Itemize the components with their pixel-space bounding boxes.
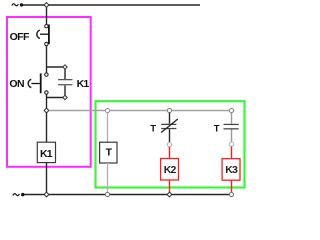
label OFF	[10, 31, 30, 43]
wire: K1 contact lower lead	[64, 86, 66, 96]
node: diamond at feed tap	[44, 108, 49, 113]
coil K3 (relay)	[222, 159, 240, 181]
svg-text:T: T	[150, 123, 156, 134]
label T (timed contact NC)	[150, 123, 156, 134]
coil T (timer)	[100, 142, 117, 163]
wire: red K3 coil to bottom rail	[231, 180, 233, 193]
wire: main vertical drop to OFF button	[46, 5, 48, 24]
AC source symbol ~ (top left)	[12, 4, 19, 6]
wire: red lead into K2 coil	[169, 147, 171, 159]
wire: branch to K1 contact (lower)	[47, 97, 64, 99]
node: corner diamond upper	[63, 65, 67, 69]
wire: segment OFF to ON / branch	[46, 46, 48, 73]
wire: lead to timed NC contact	[169, 113, 171, 124]
wire: red lead into K3 coil	[231, 146, 233, 158]
node: bottom supply dot	[21, 193, 24, 196]
node: diamond K1 to rail	[44, 192, 49, 197]
node: end circle K3 to rail	[229, 192, 233, 196]
svg-text:OFF: OFF	[10, 31, 30, 43]
frame: green group box (timer branch circuit)	[96, 101, 245, 187]
wire: K1 coil to bottom rail	[46, 163, 48, 193]
wire: T coil to bottom rail	[107, 163, 109, 192]
svg-text:K3: K3	[225, 164, 238, 176]
node: junction diamond on top rail	[44, 3, 49, 8]
pushbutton ON (normally open)	[28, 73, 48, 94]
wire: top supply rail L1	[23, 4, 201, 6]
wire: red K2 coil to bottom rail	[169, 180, 171, 194]
wire: timed NC contact to terminal	[169, 129, 171, 142]
svg-text:K1: K1	[40, 148, 53, 160]
wire: K1 contact upper lead	[64, 69, 66, 79]
node: diamond K2 to rail	[167, 192, 172, 197]
node: corner diamond lower	[63, 95, 67, 99]
AC source symbol ~ (bottom left)	[13, 194, 20, 196]
node: terminal circle above K3	[229, 142, 233, 146]
node: top supply dot	[20, 3, 23, 6]
node: end circle on feed (K3 branch)	[229, 108, 233, 112]
wire: timed NO contact to terminal	[231, 130, 233, 143]
wire: ON to K1 coil	[46, 94, 48, 142]
svg-text:ON: ON	[9, 78, 24, 90]
svg-text:K1: K1	[77, 78, 90, 90]
pushbutton OFF (normally closed)	[37, 25, 50, 46]
svg-text:T: T	[106, 147, 113, 159]
svg-text:T: T	[214, 123, 220, 134]
contact K1 (latch contact, normally open)	[58, 79, 72, 85]
node: circle T to rail	[105, 192, 109, 196]
coil K1 (relay)	[37, 142, 55, 162]
node: circle tap on feed (T branch)	[105, 108, 109, 112]
label T (timed contact NO)	[214, 123, 220, 134]
node: terminal circle above K2	[167, 142, 171, 146]
wire: gray drop to timer coil T	[107, 112, 109, 142]
coil K2 (relay)	[161, 159, 179, 181]
wire: bottom supply rail N	[24, 194, 229, 196]
node: circle tap on feed (K2 branch)	[167, 108, 171, 112]
frame: magenta group box (start/stop latch circuit)	[7, 17, 91, 167]
svg-text:K2: K2	[164, 164, 177, 176]
contact T timed normally-open	[224, 124, 239, 130]
contact T timed normally-closed (slash)	[161, 119, 178, 133]
label ON	[9, 78, 24, 90]
wire: gray feed to timer circuit	[49, 110, 229, 112]
wire: branch to K1 contact (upper)	[47, 66, 64, 68]
wire: gray lead to timed NO contact	[231, 113, 233, 124]
label K1 (contact)	[77, 78, 90, 90]
